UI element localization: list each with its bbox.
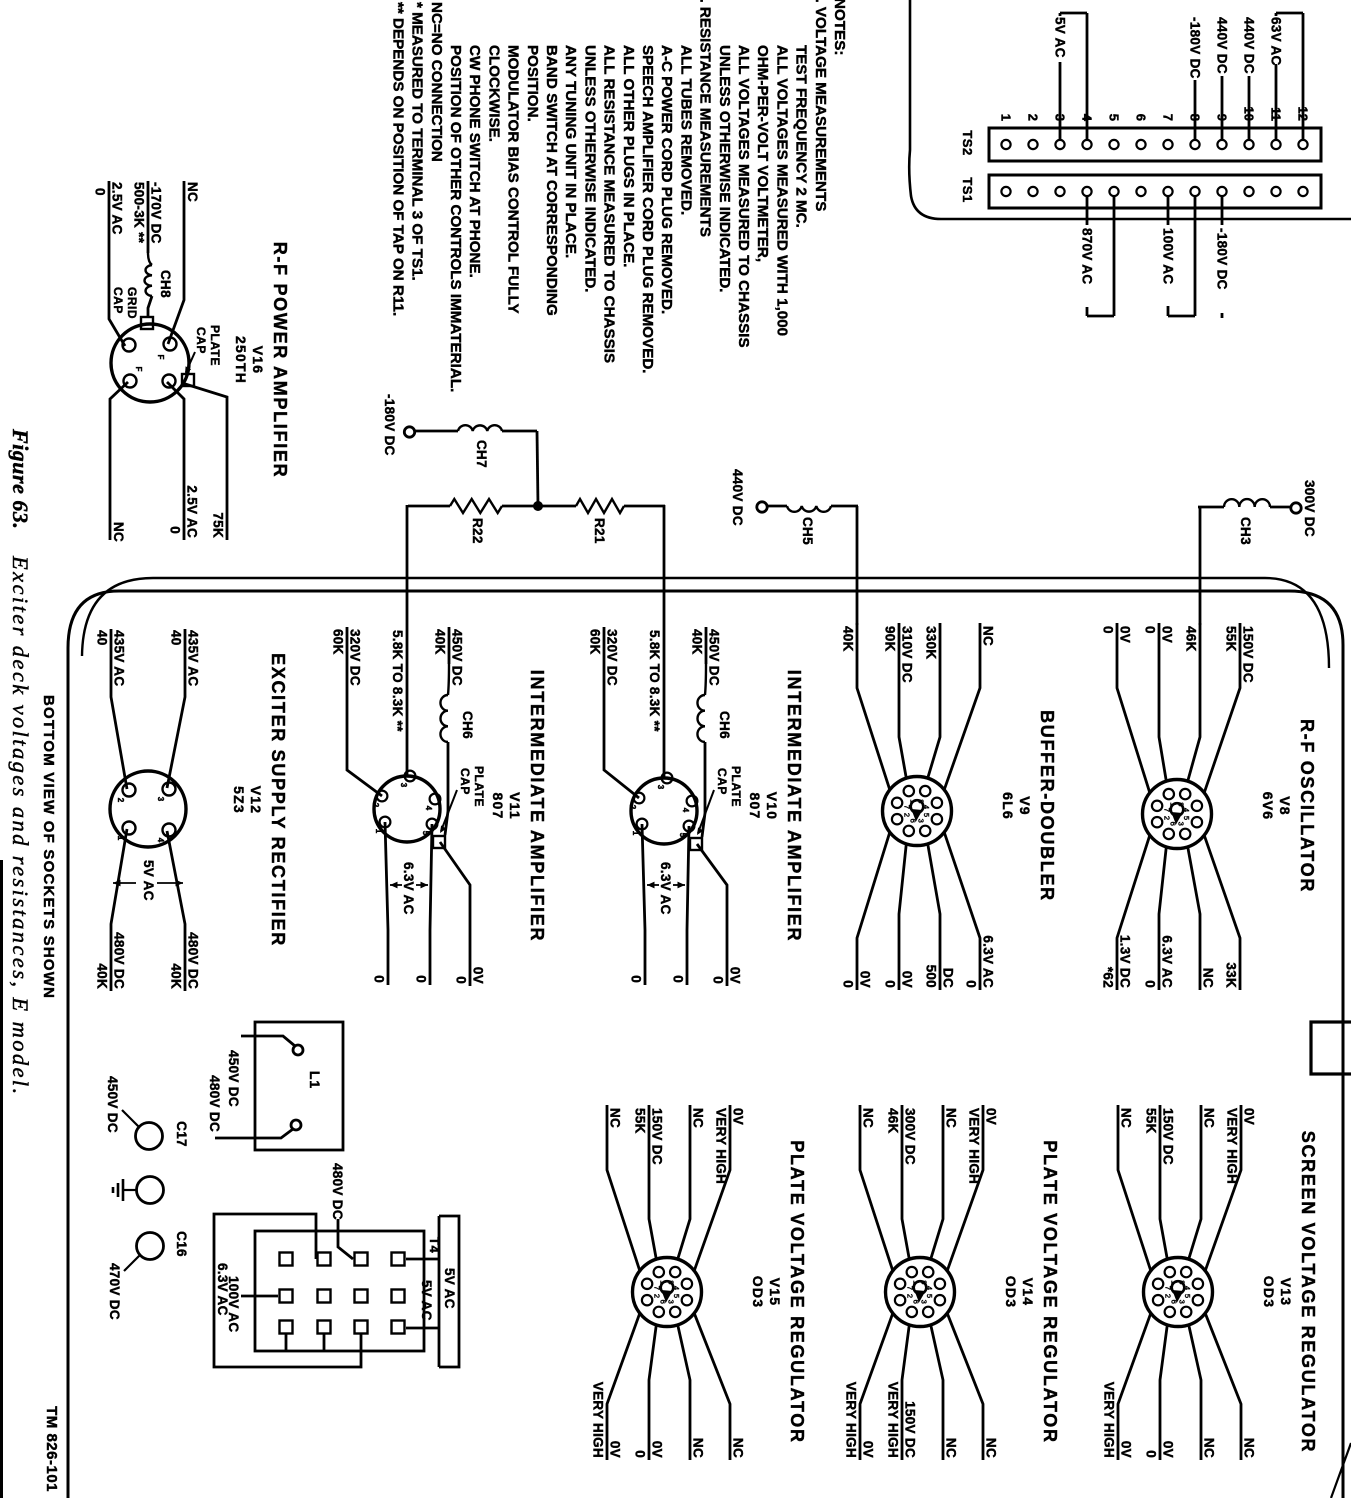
wire V15 right pin-line 4 (0V/VERY HIGH) [591,1313,640,1460]
terminal strip TS1 [960,175,1321,208]
svg-text:40K: 40K [169,963,184,989]
wire V15 left pin-line 1 (0V/VERY HIGH) [694,1105,745,1271]
wire V16 left lower (2.5V AC / 0) [93,181,126,346]
svg-text:330K: 330K [924,626,939,659]
label PLATE CAP (V16) [185,325,222,374]
wire V8 right pin-line 1 (/33K) [1204,835,1240,990]
svg-text:63V AC: 63V AC [1269,17,1284,66]
svg-text:450V DC: 450V DC [707,629,722,686]
svg-text:NC: NC [691,1108,706,1128]
svg-text:ALL RESISTANCE MEASURED TO CHA: ALL RESISTANCE MEASURED TO CHASSIS [601,45,618,363]
wire rail to V10 pin 3 (5.8K TO 8.3K **) [647,505,664,778]
svg-text:150V DC: 150V DC [650,1108,665,1165]
svg-text:1.3V DC: 1.3V DC [1118,935,1133,988]
svg-text:C16: C16 [174,1231,189,1257]
svg-text:NC=NO CONNECTION: NC=NO CONNECTION [428,2,445,162]
wire V9 right pin-line 3 (0V/0) [883,844,915,990]
wire T4 6.3V AC loop [214,1214,361,1367]
svg-text:Figure 63.: Figure 63. [8,428,33,529]
plate cap terminal V16 [182,374,194,386]
svg-text:0V: 0V [858,971,873,988]
svg-text:807: 807 [490,793,506,820]
svg-text:5Z3: 5Z3 [231,786,247,814]
svg-text:320V DC: 320V DC [605,629,620,686]
wire TS1 pin 9 (-180V DC) [1215,196,1230,318]
wire V16 plate line (75K) [182,383,227,540]
svg-text:V10: V10 [764,792,780,821]
svg-text:1. VOLTAGE MEASUREMENTS: 1. VOLTAGE MEASUREMENTS [812,0,829,211]
svg-text:NC: NC [944,1108,959,1128]
svg-text:OD3: OD3 [750,1276,766,1308]
svg-text:NC: NC [984,1438,999,1458]
svg-text:40: 40 [95,630,110,646]
svg-text:5V AC: 5V AC [419,1280,434,1321]
svg-text:V16: V16 [250,346,266,375]
svg-text:33K: 33K [1224,962,1239,988]
label BOTTOM VIEW OF SOCKETS SHOWN [40,695,57,999]
svg-text:3: 3 [1177,1300,1186,1304]
svg-text:SPEECH AMPLIFIER CORD PLUG REM: SPEECH AMPLIFIER CORD PLUG REMOVED. [639,45,656,374]
wire V12 left upper (435V AC / 40) [167,629,201,788]
svg-text:F: F [156,355,165,360]
svg-text:L1: L1 [307,1071,323,1089]
svg-text:* MEASURED TO TERMINAL 3 OF TS: * MEASURED TO TERMINAL 3 OF TS1. [409,2,426,281]
svg-text:440V DC: 440V DC [1242,17,1257,74]
svg-text:GRID: GRID [125,287,139,319]
wire V13 left pin-line 2 (NC/) [1189,1105,1217,1259]
svg-text:ALL TUBES REMOVED.: ALL TUBES REMOVED. [677,45,694,215]
wire V16 grid lead (-170V DC / 500-3K **) [132,181,164,265]
svg-text:VERY HIGH: VERY HIGH [967,1108,982,1184]
svg-text:0V: 0V [1118,626,1133,643]
svg-text:VERY HIGH: VERY HIGH [591,1382,606,1458]
wire V11 plate line (0V / 0) [440,842,486,986]
wire rail to V11 pin 3 (5.8K TO 8.3K **) [390,505,407,776]
label V15 title [750,1140,807,1443]
page corner artifact [1331,1443,1351,1498]
svg-text:46K: 46K [1184,626,1199,652]
wire TS1 pins 7-8 jumper (100V AC) [1161,196,1196,316]
svg-text:5V AC: 5V AC [141,860,156,901]
wire V10 filament A (0) [671,826,690,985]
svg-text:Exciter deck voltages and resi: Exciter deck voltages and resistances, E… [8,555,33,1097]
svg-text:5: 5 [678,833,687,838]
choke CH7 [415,425,538,506]
svg-text:PLATE: PLATE [208,325,222,366]
svg-text:1: 1 [631,831,640,836]
svg-text:ALL OTHER PLUGS IN PLACE.: ALL OTHER PLUGS IN PLACE. [620,45,637,267]
svg-text:TS1: TS1 [960,177,975,202]
svg-text:0V: 0V [608,1441,623,1458]
label T4 [427,1237,442,1253]
tube socket V15 [633,1258,702,1327]
svg-text:R22: R22 [470,518,485,544]
wire V12 right upper (480V DC / 40K) [167,831,201,991]
wire V9 left pin-line 2 (/330K) [924,623,941,778]
wire V11 filament A (0) [414,824,433,985]
capacitor C17 [105,1076,189,1150]
wire V14 left pin-line 1 (0V/VERY HIGH) [947,1105,998,1271]
wire V8 right pin-line 3 (6.3V AC/0) [1143,847,1175,990]
wire V10 plate line (0V / 0) [697,844,743,986]
svg-text:480V DC: 480V DC [207,1075,222,1132]
svg-text:0: 0 [414,975,429,983]
svg-text:0: 0 [883,980,898,988]
svg-text:2: 2 [371,803,380,808]
svg-text:NC: NC [731,1438,746,1458]
svg-text:6.3V AC: 6.3V AC [1160,935,1175,988]
svg-text:2.5V AC: 2.5V AC [185,485,200,538]
resistor R21 [576,499,624,544]
wire V8 left pin-line 1 (150V DC/55K) [1204,623,1255,793]
svg-text:40K: 40K [690,629,705,655]
svg-text:POSITION.: POSITION. [524,45,541,122]
svg-text:40K: 40K [841,626,856,652]
svg-text:300V DC: 300V DC [1302,480,1317,537]
wire V15 right pin-line 2 (NC/) [678,1325,706,1460]
svg-text:0V: 0V [1160,626,1175,643]
svg-text:0V: 0V [1119,1441,1134,1458]
svg-text:OHM-PER-VOLT VOLTMETER,: OHM-PER-VOLT VOLTMETER, [754,45,771,262]
svg-text:6V6: 6V6 [1260,792,1276,821]
svg-text:NC: NC [1242,1438,1257,1458]
svg-text:0V: 0V [861,1441,876,1458]
svg-text:-170V DC: -170V DC [149,182,164,244]
wire T4 480V DC [330,1163,353,1259]
wire V14 right pin-line 2 (NC/) [931,1325,959,1460]
svg-text:0: 0 [1143,626,1158,634]
wire TS2 pin 3 (5V AC) with jumper to pin 4 [1053,13,1088,140]
svg-text:0: 0 [1144,1450,1159,1458]
svg-text:6.3V AC: 6.3V AC [215,1263,230,1316]
wire V8 right pin-line 2 (NC/) [1188,847,1216,990]
wire V11 filament B (0) [372,822,389,985]
svg-text:CAP: CAP [715,768,729,795]
wire V13 left pin-line 1 (0V/VERY HIGH) [1205,1105,1256,1271]
wire V9 right pin-line 2 (DC/500) [924,844,956,990]
svg-text:55K: 55K [1224,626,1239,652]
wire V8 right pin-line 4 (1.3V DC/*62) [1101,835,1150,990]
svg-text:3: 3 [656,785,665,790]
svg-text:BAND SWITCH AT CORRESPONDING: BAND SWITCH AT CORRESPONDING [543,45,560,316]
svg-text:6.3V AC: 6.3V AC [658,862,673,915]
svg-text:** DEPENDS ON POSITION OF TAP: ** DEPENDS ON POSITION OF TAP ON R11. [389,2,406,316]
svg-text:ALL VOLTAGES MEASURED TO CHASS: ALL VOLTAGES MEASURED TO CHASSIS [735,45,752,348]
tube socket V8 [1143,780,1212,849]
tube socket V12 [110,771,186,847]
svg-text:0V: 0V [900,971,915,988]
wire V10 filament B (0) [629,824,646,985]
svg-text:V15: V15 [767,1278,783,1307]
svg-text:5: 5 [1183,1294,1192,1298]
svg-text:VERY HIGH: VERY HIGH [844,1382,859,1458]
svg-text:310V DC: 310V DC [900,626,915,683]
svg-text:UNLESS OTHERWISE INDICATED.: UNLESS OTHERWISE INDICATED. [716,45,733,293]
wire V15 left pin-line 2 (NC/) [678,1105,706,1259]
label V16 title [233,242,290,479]
label 6.3V AC (V10) [647,862,685,915]
terminal L1 lead 1 (450V DC) [226,1036,303,1107]
svg-text:100V AC: 100V AC [1161,228,1176,284]
wire V14 left pin-line 4 (NC/) [860,1105,893,1271]
svg-text:V9: V9 [1017,796,1033,816]
terminal -180V DC (circle) [382,394,415,456]
svg-text:NC: NC [944,1438,959,1458]
svg-text:0V: 0V [650,1441,665,1458]
svg-text:EXCITER SUPPLY RECTIFIER: EXCITER SUPPLY RECTIFIER [268,653,288,947]
svg-text:1: 1 [374,829,383,834]
svg-text:VERY HIGH: VERY HIGH [1102,1382,1117,1458]
svg-text:SCREEN VOLTAGE REGULATOR: SCREEN VOLTAGE REGULATOR [1298,1131,1318,1453]
wire V16 left NC [168,181,200,344]
wire V11 left (320V DC / 60K) [331,627,383,796]
svg-text:4: 4 [681,808,690,813]
choke CH5 [767,506,858,545]
svg-text:440V DC: 440V DC [730,469,745,526]
wire -180V DC rail (vertical) [408,505,665,508]
svg-text:0: 0 [1143,980,1158,988]
svg-text:CH5: CH5 [800,517,815,545]
wire TS2 pin 9 (440V DC) [1215,17,1230,140]
wire V8 left pin-line 4 (0V/0) [1101,623,1150,793]
svg-text:PLATE VOLTAGE REGULATOR: PLATE VOLTAGE REGULATOR [1040,1140,1060,1443]
svg-text:6.3V AC: 6.3V AC [981,935,996,988]
wire V9 left pin-line 3 (310V DC/90K) [883,623,915,778]
capacitor C16 [107,1231,189,1320]
svg-text:PLATE VOLTAGE REGULATOR: PLATE VOLTAGE REGULATOR [787,1140,807,1443]
label PLATE CAP (V10) [697,766,743,835]
svg-text:-180V DC: -180V DC [1188,17,1203,79]
svg-text:450V DC: 450V DC [226,1050,241,1107]
wire V12 right lower (480V DC / 40K) [95,829,128,991]
svg-text:150V DC: 150V DC [1241,626,1256,683]
svg-text:5: 5 [421,831,430,836]
choke CH8 [144,265,173,318]
svg-text:CH8: CH8 [158,270,173,298]
plate cap terminal V11 [433,836,445,848]
svg-text:OD3: OD3 [1003,1276,1019,1308]
terminal 300V DC (circle) [1291,480,1317,537]
connector J (small box at canvas top edge) [1311,1022,1351,1074]
wire V14 right pin-line 1 (NC/) [947,1313,998,1460]
svg-text:NC: NC [1119,1108,1134,1128]
wire CH6 to plate cap (V11) [445,742,448,835]
svg-text:870V AC: 870V AC [1080,228,1095,284]
svg-text:0: 0 [93,188,108,196]
choke L1 (box) [255,1022,343,1150]
svg-text:VERY HIGH: VERY HIGH [886,1382,901,1458]
svg-text:5: 5 [1107,114,1122,121]
tube socket V9 [883,777,952,846]
svg-text:5: 5 [672,1294,681,1298]
svg-text:40: 40 [169,630,184,646]
svg-text:ALL VOLTAGES MEASURED WITH 1,0: ALL VOLTAGES MEASURED WITH 1,000 [773,45,790,336]
svg-text:2: 2 [906,1294,915,1298]
svg-text:450V DC: 450V DC [105,1076,120,1133]
svg-text:NC: NC [1202,1438,1217,1458]
svg-text:807: 807 [747,793,763,820]
wire V13 right pin-line 3 (0V/0) [1144,1325,1176,1460]
wire V15 left pin-line 4 (NC/) [607,1105,640,1271]
svg-text:0: 0 [711,976,726,984]
label 6.3V AC (V11) [390,862,428,915]
svg-text:450V DC: 450V DC [450,629,465,686]
svg-text:3: 3 [666,1300,675,1304]
svg-text:0: 0 [671,975,686,983]
label V12 title [231,653,288,947]
svg-text:0: 0 [372,975,387,983]
wire V16 right upper (2.5V AC / 0) [167,382,200,540]
label TM 826-101 [43,1406,60,1492]
svg-text:2. RESISTANCE MEASUREMENTS: 2. RESISTANCE MEASUREMENTS [697,0,714,237]
svg-text:NC: NC [981,626,996,646]
svg-text:2: 2 [903,813,912,817]
svg-text:V8: V8 [1277,796,1293,816]
svg-text:TEST FREQUENCY 2 MC.: TEST FREQUENCY 2 MC. [793,45,810,228]
svg-text:0: 0 [1101,626,1116,634]
svg-text:-180V DC: -180V DC [382,394,397,456]
svg-text:480V DC: 480V DC [112,932,127,989]
svg-text:CLOCKWISE.: CLOCKWISE. [485,45,502,142]
svg-text:4: 4 [424,806,433,811]
svg-text:2.5V AC: 2.5V AC [110,182,125,235]
svg-text:NC: NC [1202,1108,1217,1128]
ground (chassis ground symbol) [113,1177,164,1204]
tube socket V13 [1144,1258,1213,1327]
svg-text:V12: V12 [248,786,264,815]
svg-text:320V DC: 320V DC [348,629,363,686]
label V11 title [490,670,547,942]
svg-text:0V: 0V [731,1108,746,1125]
svg-text:46K: 46K [886,1108,901,1134]
node junction dot (rail to CH7) [534,502,543,511]
label V8 title [1260,719,1317,893]
svg-text:480V DC: 480V DC [186,932,201,989]
transformer T4 (box with 12 terminals) [255,1231,424,1351]
svg-text:60K: 60K [331,629,346,655]
wire CH6 to plate cap (V10) [702,742,705,837]
wire TS2 pin 11 (63V AC) with jumper to pin 12 [1269,13,1304,140]
svg-text:CH3: CH3 [1238,517,1253,545]
svg-text:A-C POWER CORD PLUG REMOVED.: A-C POWER CORD PLUG REMOVED. [658,45,675,314]
svg-text:-180V DC: -180V DC [1215,228,1230,290]
label PLATE CAP (V11) [440,766,486,833]
svg-text:V14: V14 [1020,1278,1036,1307]
svg-text:250TH: 250TH [233,336,249,384]
wire V8 left pin-line 3 (0V/0) [1143,623,1175,781]
svg-text:2: 2 [1163,816,1172,820]
svg-text:2: 2 [1164,1294,1173,1298]
svg-text:40K: 40K [95,963,110,989]
svg-text:2: 2 [653,1294,662,1298]
svg-text:V13: V13 [1278,1278,1294,1307]
svg-text:3: 3 [919,1300,928,1304]
svg-text:NC: NC [185,182,200,202]
svg-text:60K: 60K [588,629,603,655]
svg-text:90K: 90K [883,626,898,652]
wire deck edge (terminal strip panel boundary) [909,0,1351,219]
svg-text:TM 826-101: TM 826-101 [43,1406,60,1492]
wire V8 left pin-line 2 (/46K) [1184,623,1201,781]
svg-text:1: 1 [999,114,1014,121]
svg-text:5.8K TO 8.3K **: 5.8K TO 8.3K ** [390,630,405,732]
wire V13 right pin-line 4 (0V/VERY HIGH) [1102,1313,1151,1460]
svg-text:CH6: CH6 [717,711,732,739]
svg-text:0V: 0V [984,1108,999,1125]
svg-text:0V: 0V [1242,1108,1257,1125]
svg-text:R21: R21 [592,518,607,544]
label TS2 pin numbers 1-12 [999,107,1311,122]
svg-text:6: 6 [1134,114,1149,121]
wire T4 100V AC [226,1276,278,1332]
label GRID CAP (V16) [111,287,139,319]
wire V9 left pin-line 4 (/40K) [841,623,890,790]
svg-text:500: 500 [924,965,939,988]
svg-text:6L6: 6L6 [1000,792,1016,820]
svg-text:R-F POWER AMPLIFIER: R-F POWER AMPLIFIER [270,242,290,479]
wire V10 left (320V DC / 60K) [588,627,640,798]
svg-text:CH6: CH6 [460,711,475,739]
page edge artifact (scan line) [0,860,3,1498]
svg-text:300V DC: 300V DC [903,1108,918,1165]
svg-text:VERY HIGH: VERY HIGH [1225,1108,1240,1184]
wire V9 right pin-line 4 (0V/0) [841,832,890,990]
resistor R22 [450,499,502,544]
wire TS2 pin 8 (-180V DC) [1188,17,1203,140]
wire V14 left pin-line 3 (300V DC/46K) [886,1105,918,1259]
svg-text:VERY HIGH: VERY HIGH [714,1108,729,1184]
svg-text:7: 7 [1161,114,1176,121]
svg-text:0: 0 [633,1450,648,1458]
wire V9 right pin-line 1 (6.3V AC/0) [944,832,995,990]
svg-text:NC: NC [1201,968,1216,988]
wire V14 right pin-line 3 (150V DC/VERY HIGH) [886,1325,918,1460]
svg-text:55K: 55K [1144,1108,1159,1134]
svg-text:R-F OSCILLATOR: R-F OSCILLATOR [1297,719,1317,893]
svg-text:5.8K TO 8.3K **: 5.8K TO 8.3K ** [647,630,662,732]
wire V15 right pin-line 3 (0V/0) [633,1325,665,1460]
svg-text:BOTTOM VIEW OF SOCKETS SHOWN: BOTTOM VIEW OF SOCKETS SHOWN [40,695,57,999]
svg-text:2: 2 [116,798,125,803]
label V13 title [1261,1131,1318,1453]
label figure caption [8,428,33,1097]
wire TS1 pins 4-5 jumper (870V AC) [1080,196,1115,316]
svg-text:2: 2 [628,805,637,810]
svg-text:UNLESS OTHERWISE INDICATED.: UNLESS OTHERWISE INDICATED. [581,45,598,293]
wire V16 right lower (NC) [110,382,128,542]
wire V13 left pin-line 4 (NC/) [1118,1105,1151,1271]
svg-text:INTERMEDIATE AMPLIFIER: INTERMEDIATE AMPLIFIER [527,670,547,942]
grid cap terminal V16 [141,317,153,329]
svg-text:CAP: CAP [458,768,472,795]
svg-text:NOTES:: NOTES: [831,0,848,55]
chassis outline (exciter deck, bottom view) [68,578,1343,1498]
wire V13 left pin-line 3 (150V DC/55K) [1144,1105,1176,1259]
svg-text:3: 3 [156,797,165,802]
svg-text:5: 5 [1182,816,1191,820]
svg-text:*62: *62 [1101,967,1116,988]
svg-text:F: F [134,367,143,372]
svg-text:PLATE: PLATE [729,766,743,807]
choke CH6 (V10) [697,695,732,742]
svg-text:435V AC: 435V AC [186,630,201,686]
label V9 title [1000,710,1057,902]
svg-text:5V AC: 5V AC [442,1268,457,1309]
svg-text:V11: V11 [507,792,523,820]
svg-text:55K: 55K [633,1108,648,1134]
wire V12 left lower (435V AC / 40) [95,629,128,789]
wire V15 right pin-line 1 (NC/) [694,1313,745,1460]
